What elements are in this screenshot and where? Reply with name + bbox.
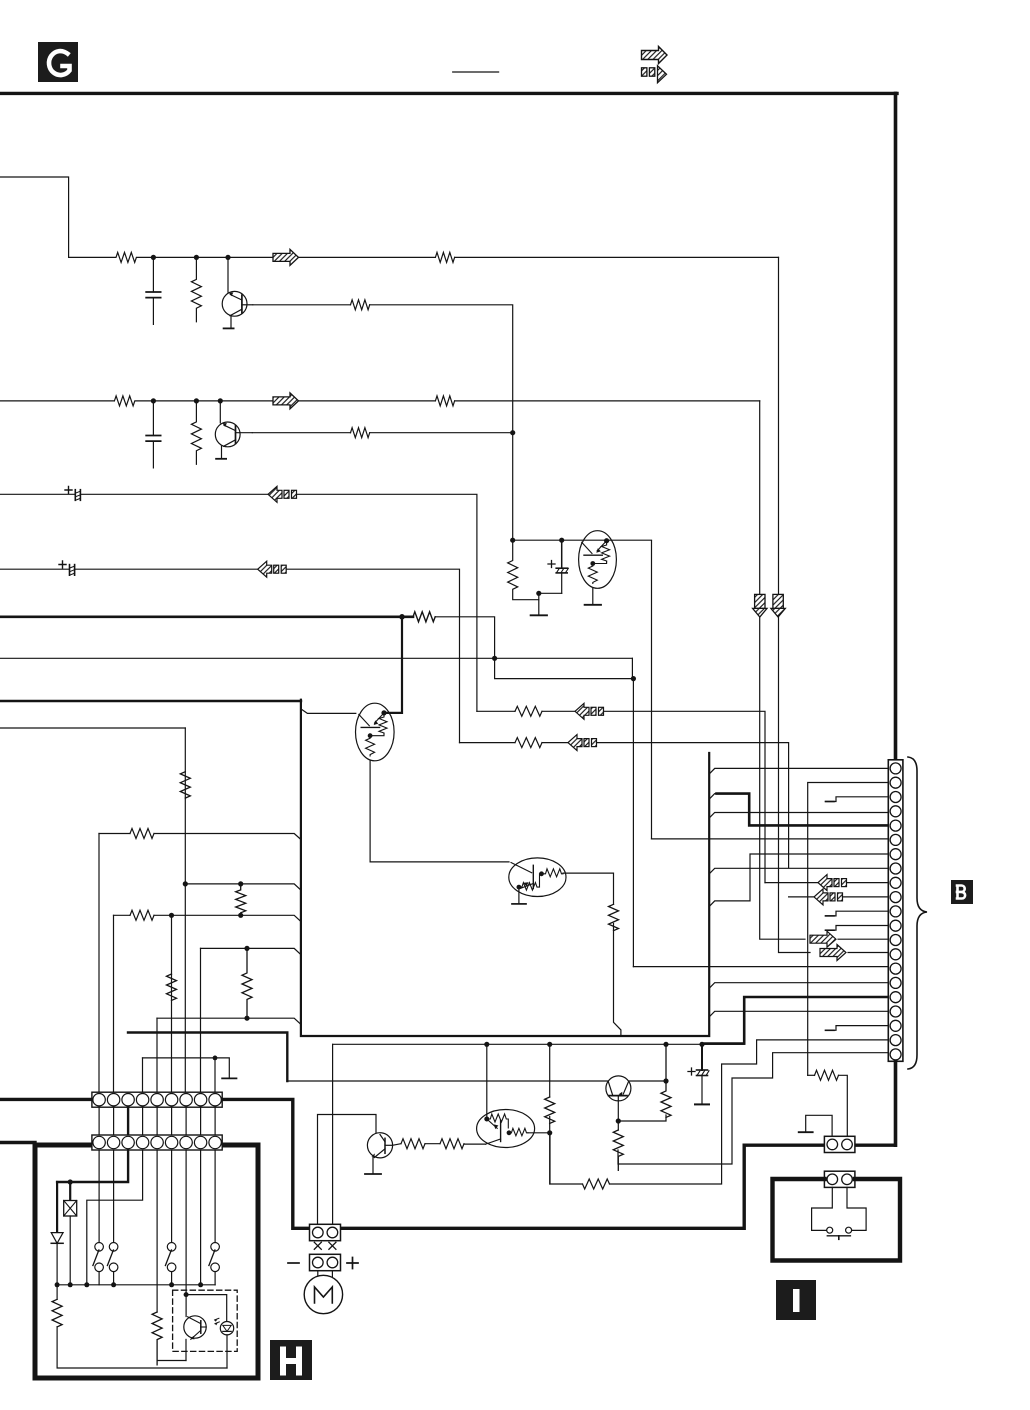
light arrows (215, 1318, 220, 1325)
wire ch1 base line to vertical (370, 305, 513, 540)
node 1018 (244, 1016, 249, 1021)
node rail-sw2 (111, 1282, 116, 1287)
right border below CN-B (thick) (894, 1061, 898, 1145)
wire pin2 from right drop (808, 783, 889, 1076)
connector CN-M2 (310, 1254, 341, 1270)
wire ch2 out (base) (252, 432, 350, 434)
wire Q7 out to resistor (563, 873, 614, 904)
wire pin9 tail (847, 882, 889, 884)
wire p2 down (113, 915, 115, 1092)
wire line2 row: resistor and arrow (460, 742, 516, 744)
switch SW1 (93, 1150, 103, 1285)
wire 742 to right vertical (597, 743, 789, 868)
node fuse top (68, 1179, 73, 1184)
wire 494-678 link (495, 658, 633, 678)
wire 658 corner to join (631, 658, 633, 678)
wire pin21 staircase (618, 1053, 888, 1164)
wire ch1 to right corner (455, 256, 779, 258)
capacitor C-bias (polarized to rail) (539, 540, 569, 593)
connector CN-B pins (890, 763, 901, 1060)
resistor R-p6 (167, 974, 177, 1000)
section label G (38, 42, 78, 82)
wire thick left shelf (128, 1033, 287, 1082)
capacitor C-line2 (polarized series) (59, 561, 258, 575)
resistor R-Q7 (609, 904, 619, 930)
wire bus-728 (0, 727, 185, 729)
wire ch1 main to right (153, 256, 435, 258)
signal arrow pin13 (right) (810, 931, 836, 947)
capacitor C-702 (polarized to ground) (688, 1044, 709, 1104)
ground stub pin3 (826, 797, 889, 802)
wire Q8 emitter to base line (464, 1143, 486, 1145)
connector CN-I2 (824, 1171, 855, 1187)
switch SW3 (165, 1150, 176, 1285)
wire pin17 thick from lower loop (702, 997, 888, 1044)
resistor R-H1 (52, 1299, 62, 1327)
wire 915 to bus jog (154, 915, 301, 921)
wire ch2 main (153, 400, 435, 402)
wire 742 mid (542, 742, 568, 744)
connector CN-M1 (310, 1224, 341, 1240)
section label H (270, 1340, 312, 1380)
node bias-gnd (536, 591, 541, 596)
wire thick strip to motor loop (222, 1099, 893, 1228)
wire R-H1 to bottom line (57, 1327, 227, 1368)
signal arrow ch2 (right) (273, 393, 299, 409)
legend arrow solid (right) (642, 47, 668, 64)
label minus (288, 1262, 299, 1264)
digital transistor Q8 (oval horizontal) (477, 1110, 535, 1148)
ground p4 link (222, 1077, 236, 1079)
legend line (453, 71, 499, 73)
ground stub pin12 (826, 926, 889, 931)
wire Q4 emitter down to oval3 base (370, 761, 509, 862)
section label I (776, 1280, 816, 1320)
wire Q7 emitter ground (518, 890, 520, 904)
flow arrow down B (771, 594, 785, 617)
brace for CN-B (908, 757, 927, 1069)
wire thick strip feed left (0, 1098, 92, 1101)
resistor R-ch2-gnd (191, 401, 201, 464)
node ch1-c (225, 255, 230, 260)
node bias-b (559, 538, 564, 543)
wire coupler top link (186, 1295, 227, 1322)
node 1044-549 (547, 1042, 552, 1047)
node ch2-c (218, 398, 223, 403)
node 884-resistor (238, 881, 243, 886)
wire 833 with resistor (99, 833, 130, 835)
resistor R-H2 (152, 1312, 162, 1365)
node 1044-702 (699, 1042, 704, 1047)
LED D2 (220, 1322, 233, 1369)
resistor R-948 vertical (242, 948, 252, 1015)
wire bus-658 (0, 657, 632, 659)
switch SW2 (107, 1150, 117, 1285)
resistor R-616 (413, 612, 435, 622)
wire line1 row: resistor and arrow (477, 710, 515, 712)
signal arrow 742 (left segmented) (568, 735, 597, 751)
wire pin8 from spine (709, 868, 888, 874)
node 1044-486 (484, 1042, 489, 1047)
wire Q8 out to node (528, 1132, 550, 1134)
node ch1-a (151, 255, 156, 260)
node wire2 start (183, 881, 188, 886)
resistor R-ch2-in (114, 396, 150, 406)
wire 1018 left to p5 and right to bus jog (157, 1018, 301, 1024)
wire p5 down (156, 1018, 158, 1092)
box I outline (773, 1179, 901, 1261)
ground stub pin19 (826, 1026, 889, 1031)
signal arrow pin14 (right) (820, 945, 846, 961)
wire Q3 emitter to ground (592, 588, 594, 604)
wire base node rail (513, 539, 652, 541)
transistor Q5 (606, 1076, 631, 1101)
wire pin15 from 678 drop (633, 966, 888, 968)
resistor R-915 (130, 910, 154, 920)
wire oval4 top feed (486, 1044, 488, 1119)
ground stub pin11 (826, 911, 889, 916)
resistor R-ch2-b (351, 428, 370, 438)
resistor R-833 (130, 829, 154, 839)
node ch2-b (194, 398, 199, 403)
wire arrow to pin13 (838, 938, 888, 940)
node 915-a (169, 913, 174, 918)
node p8 rail (198, 1282, 203, 1287)
capacitor C-ch2 (146, 401, 160, 468)
node rail-fuse (68, 1282, 73, 1287)
wire q6 emitter ground (372, 1158, 374, 1174)
legend arrow segmented (right) (642, 66, 667, 83)
node 1044-666 (663, 1042, 668, 1047)
resistor R-711 (515, 706, 542, 716)
wire q5 base chain (617, 1096, 619, 1130)
wire ch1 input (0, 177, 69, 257)
wire pin4 from spine (709, 813, 888, 819)
resistor R-q5e (613, 1130, 623, 1170)
capacitor C-line1 (polarized series) (65, 487, 268, 501)
resistor R-742 (515, 738, 542, 748)
wire pin1 from spine (709, 768, 888, 774)
wire pin7 from spine (709, 854, 888, 907)
top border (thick) (0, 92, 897, 95)
wire p5 down to R-H2 (156, 1150, 158, 1312)
wire supply 1044 rail (333, 1043, 745, 1045)
node p4 rail (84, 1282, 89, 1287)
node ch2-a (151, 398, 156, 403)
wire stair20 tail (550, 1133, 583, 1184)
node 948 (244, 946, 249, 951)
wire p4 dogleg to rail (87, 1150, 143, 1285)
resistor R-p7 (180, 772, 190, 798)
wire p4 ground link (143, 1058, 230, 1078)
wire q5b to r666 (618, 1115, 666, 1121)
ground Q3 (585, 604, 601, 606)
resistor R-ch1-b (351, 300, 370, 310)
ground CN-I1 (799, 1115, 832, 1136)
digital transistor Q4 (oval) (356, 703, 395, 761)
wire q6 base (392, 1144, 401, 1146)
wire r549 lower (549, 1117, 551, 1185)
wire 1081 line (287, 1080, 666, 1082)
wire pin20 staircase (610, 1040, 889, 1184)
resistor R-q6b2 (440, 1139, 464, 1149)
ground bias (531, 593, 547, 615)
wires ST1 to ST2 (99, 1107, 215, 1135)
wire 948 to bus jog (201, 948, 301, 954)
wire pin5 thick from spine (709, 794, 718, 800)
resistor R-549 (545, 1097, 555, 1123)
signal arrow pin10 (left segmented) (814, 889, 843, 905)
wire p1 down (98, 834, 100, 1093)
motor M1 (304, 1271, 342, 1314)
switch SW4 (209, 1150, 220, 1285)
wire emitter to R-H2 (157, 1360, 186, 1362)
transistor Q1 (222, 257, 253, 328)
resistor R-bias (508, 540, 539, 600)
transistor Q2 (215, 401, 252, 459)
resistor R-ch1-gnd (191, 257, 201, 321)
wire pin18 from spine (709, 1011, 888, 1017)
wire arrow to pin14 (848, 952, 888, 954)
wire pin16 from spine (709, 983, 888, 989)
resistor R-ch2-2 (435, 396, 454, 406)
wire 884 to bus jog (185, 884, 301, 890)
wire 711 to right vertical (604, 711, 766, 882)
node bus-616 (399, 614, 405, 620)
resistor R-807 (815, 1070, 839, 1080)
flow arrow down A (753, 594, 767, 617)
photo coupler dashed box (173, 1290, 238, 1351)
wire base jog to Q4 (301, 709, 356, 714)
wire bus-616 (medium) (0, 615, 413, 618)
resistor R-666 (661, 1044, 671, 1117)
node ch-bases join (510, 430, 515, 435)
ground Q7 (512, 903, 526, 905)
wire pin10 with left arrow (789, 896, 814, 898)
wire thick H top from edge (0, 1141, 35, 1144)
connector strip ST2 (92, 1135, 222, 1150)
node 549-1133 (547, 1130, 552, 1135)
fuse F1 (64, 1182, 77, 1285)
wire ch2 to right corner (455, 400, 760, 402)
wire 833 to bus jog (154, 701, 301, 840)
connector CN-I1 (824, 1136, 855, 1152)
wire 616 corner down (435, 617, 494, 659)
box H outline (35, 1145, 258, 1378)
wire thick bus: down, across, spine up (301, 700, 709, 1036)
wire Q4 collector feed (thick) (386, 617, 402, 713)
resistor R-q6b1 (401, 1139, 425, 1149)
node q5-b (616, 1118, 621, 1123)
wire Q3 collector rail to right corner (651, 541, 653, 839)
digital transistor Q7 (oval horizontal) (509, 858, 566, 897)
photo transistor Q9 (184, 1295, 206, 1361)
diode D1 (51, 1182, 63, 1299)
wire p9 down (214, 1058, 216, 1092)
node 678 (631, 676, 636, 681)
resistor R-ch1-2 (435, 252, 454, 262)
resistor R-884-915 (236, 884, 246, 915)
wire pin10 tail (843, 896, 889, 898)
node 915-b (238, 913, 243, 918)
wire p7 vertical long (184, 728, 186, 1092)
wire ch1 out (base) (253, 304, 351, 306)
section label B (951, 880, 973, 904)
wire line1 to corner (297, 494, 477, 711)
signal arrow line1 (left segmented) (268, 486, 297, 502)
wire pin6 from Q3 rail drop (652, 838, 889, 840)
plug inside I (812, 1187, 867, 1239)
signal arrow pin9 (left segmented) (818, 875, 847, 891)
capacitor C-ch1 (146, 257, 160, 324)
wire 711 mid (542, 710, 575, 712)
signal arrow line2 (left segmented) (258, 561, 287, 577)
wire ch2 input (0, 400, 114, 402)
wire p4 down (142, 1058, 144, 1092)
ground q6 (365, 1173, 381, 1175)
wire bus-701 (thick) (0, 700, 301, 703)
node rail-sw3 (169, 1282, 174, 1287)
node bias-a (510, 538, 515, 543)
wire R-807 to CN-I1 (839, 1075, 848, 1136)
wire p8 down (200, 948, 202, 1092)
wire line2 (0, 568, 70, 570)
node 666-1081 (663, 1078, 668, 1083)
connector CN-B body (888, 760, 903, 1062)
wire p8 down to rail (200, 1150, 202, 1285)
node rail-diode (55, 1282, 60, 1287)
wire 915 with resistor (114, 914, 131, 916)
node p7 coupler (184, 1292, 189, 1297)
wire p6 down with resistor (171, 915, 173, 1092)
node p9 top (213, 1056, 218, 1061)
wire ch1 down run (779, 257, 811, 952)
wire R-Q7 down jog to thick (614, 924, 621, 1037)
wire 678 down to pin15 corner (632, 679, 634, 967)
wire r549 vertical (549, 1044, 551, 1097)
connector strip ST1 (92, 1092, 222, 1107)
wire q6 base mid (425, 1143, 440, 1145)
wire line1 (0, 493, 75, 495)
wire ch2 base to vertical node (370, 432, 512, 434)
wire pin2-chain resistor (808, 1074, 815, 1076)
right border (thick) (894, 93, 898, 759)
resistor R-ch1-in (69, 252, 156, 262)
wire fuse feed thick (57, 1150, 128, 1182)
signal arrow 711 (left segmented) (575, 703, 604, 719)
node 658 (492, 656, 497, 661)
wire H common rail (56, 1284, 215, 1286)
wire line2 to corner (286, 569, 459, 742)
wire p7 down to coupler (185, 1150, 187, 1295)
mating marks x x (314, 1242, 336, 1249)
wire ch2 down run (760, 401, 805, 939)
node ch1-b (194, 255, 199, 260)
signal arrow ch1 (right) (273, 249, 299, 265)
wire pin9 with left arrow (765, 882, 818, 884)
label plus (347, 1258, 358, 1269)
resistor R-stair20 (583, 1179, 610, 1189)
digital transistor Q3 (oval) (579, 531, 617, 589)
transistor Q6 (318, 1044, 393, 1224)
